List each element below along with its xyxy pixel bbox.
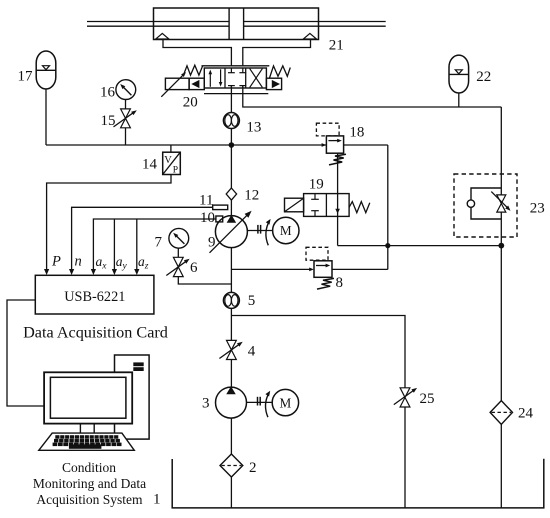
- svg-text:6: 6: [190, 260, 198, 276]
- svg-text:10: 10: [200, 210, 215, 226]
- svg-text:14: 14: [142, 157, 158, 173]
- svg-text:Monitoring and Data: Monitoring and Data: [33, 476, 146, 491]
- svg-text:16: 16: [100, 85, 116, 101]
- svg-text:12: 12: [244, 187, 259, 203]
- svg-text:3: 3: [202, 396, 210, 412]
- svg-text:n: n: [75, 254, 82, 270]
- svg-text:Data Acquisition Card: Data Acquisition Card: [23, 323, 168, 341]
- svg-text:19: 19: [309, 177, 324, 193]
- svg-text:M: M: [280, 223, 292, 238]
- svg-text:9: 9: [208, 234, 216, 250]
- svg-text:25: 25: [420, 391, 435, 407]
- svg-text:P: P: [51, 254, 61, 270]
- svg-text:V: V: [164, 155, 172, 166]
- svg-text:22: 22: [476, 69, 491, 85]
- svg-text:Acquisition System: Acquisition System: [36, 492, 143, 507]
- svg-text:15: 15: [101, 113, 116, 129]
- svg-text:M: M: [280, 395, 292, 410]
- svg-text:23: 23: [530, 200, 545, 216]
- svg-text:24: 24: [518, 405, 534, 421]
- svg-text:P: P: [173, 166, 178, 176]
- svg-text:Condition: Condition: [62, 460, 116, 475]
- svg-text:21: 21: [329, 37, 344, 53]
- svg-text:4: 4: [248, 343, 256, 359]
- svg-text:17: 17: [18, 68, 34, 84]
- svg-text:13: 13: [246, 119, 261, 135]
- svg-text:8: 8: [336, 275, 344, 291]
- svg-text:2: 2: [249, 460, 257, 476]
- svg-text:7: 7: [155, 234, 163, 250]
- svg-text:5: 5: [248, 293, 256, 309]
- svg-text:20: 20: [183, 95, 198, 111]
- svg-text:18: 18: [349, 125, 364, 141]
- svg-text:11: 11: [199, 193, 213, 209]
- svg-text:1: 1: [153, 492, 161, 508]
- svg-text:USB-6221: USB-6221: [64, 289, 125, 305]
